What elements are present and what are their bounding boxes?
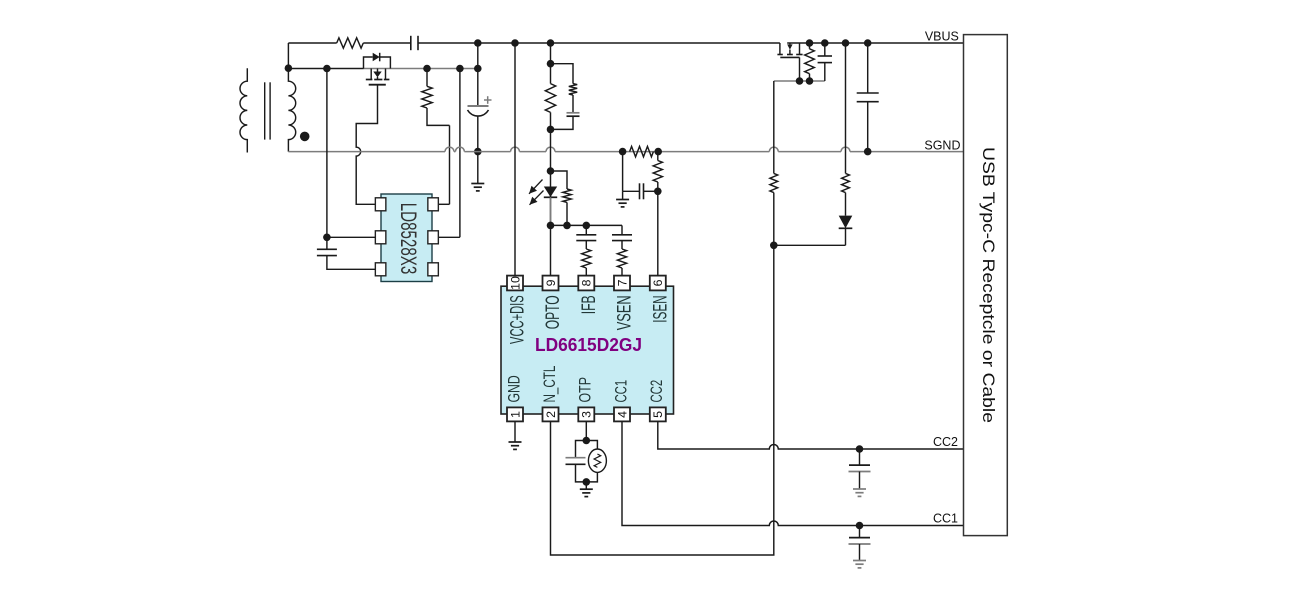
svg-text:1: 1 <box>508 411 522 418</box>
svg-text:CC1: CC1 <box>612 380 630 403</box>
svg-text:CC1: CC1 <box>933 512 958 526</box>
svg-text:VSEN: VSEN <box>615 295 636 330</box>
svg-text:7: 7 <box>615 279 629 286</box>
svg-text:CC2: CC2 <box>933 435 958 449</box>
svg-text:VCC+DIS: VCC+DIS <box>508 295 529 344</box>
svg-text:8: 8 <box>580 279 594 286</box>
svg-text:2: 2 <box>544 411 558 418</box>
svg-text:5: 5 <box>651 411 665 418</box>
svg-text:SGND: SGND <box>924 139 960 153</box>
svg-text:LD8528X3: LD8528X3 <box>396 203 421 275</box>
svg-text:LD6615D2GJ: LD6615D2GJ <box>535 335 642 355</box>
svg-text:GND: GND <box>505 375 523 402</box>
svg-text:OTP: OTP <box>577 377 595 403</box>
svg-text:4: 4 <box>615 411 629 418</box>
svg-text:3: 3 <box>580 411 594 418</box>
svg-text:N_CTL: N_CTL <box>541 366 559 403</box>
svg-text:CC2: CC2 <box>648 380 666 403</box>
svg-text:VBUS: VBUS <box>925 30 959 44</box>
svg-text:9: 9 <box>544 279 558 286</box>
svg-text:IFB: IFB <box>579 295 600 314</box>
svg-text:ISEN: ISEN <box>650 295 671 323</box>
svg-text:OPTO: OPTO <box>543 295 564 329</box>
svg-text:6: 6 <box>651 279 665 286</box>
svg-text:10: 10 <box>508 276 522 290</box>
svg-text:USB Typc-C Receptcle or Cable: USB Typc-C Receptcle or Cable <box>979 147 998 423</box>
